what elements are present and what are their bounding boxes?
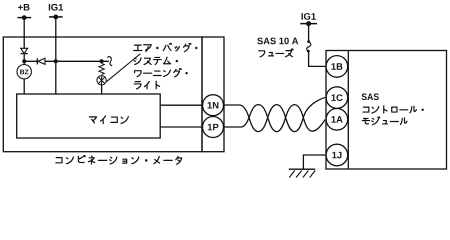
label SAS 10 A [257, 38, 298, 45]
wire IG1 down to microcomputer [55, 17, 57, 94]
connector pin 1J [326, 144, 348, 166]
wire BZ to microcomputer [23, 79, 25, 94]
wire microcomputer to 1N [160, 104, 202, 106]
label SAS control module [362, 93, 379, 100]
connector pin 1N [203, 95, 224, 116]
label IG1 left [49, 4, 63, 11]
junction node B [54, 59, 58, 63]
twisted pair wire B (1P to 1A) [224, 105, 326, 132]
wire microcomputer to 1P [160, 126, 202, 128]
label IG1 right [301, 13, 315, 20]
leader line to lamp [106, 54, 140, 82]
wire horizontal bus [24, 60, 109, 62]
buzzer BZ [17, 65, 31, 79]
twisted pair wire A (1N to 1C) [224, 98, 326, 132]
continuation hook (wire continues) [108, 57, 113, 66]
wire fuse to 1B [309, 51, 326, 66]
ground [289, 169, 315, 177]
junction node C (lamp branch) [100, 59, 104, 63]
connector pin 1P [203, 117, 224, 138]
connector pin 1B [326, 56, 348, 78]
label air bag system warning light (katakana) [134, 43, 198, 89]
microcomputer box [17, 94, 161, 138]
fuse SAS 10A symbol [307, 40, 311, 52]
diode D1 (vertical, cathode down) [21, 48, 28, 53]
air bag warning lamp [97, 76, 106, 85]
terminal IG1 right [300, 21, 317, 26]
diode D2 (horizontal, cathode left) [37, 58, 45, 64]
terminal +B [18, 15, 32, 20]
wire IG1 to fuse [308, 24, 310, 42]
connector pin 1C [326, 87, 348, 109]
wire +B down [23, 18, 25, 49]
wire lamp to microcomputer [101, 85, 103, 94]
connector strip right line [347, 51, 349, 170]
connector strip 1N/1P [202, 37, 224, 152]
junction node A [22, 59, 26, 63]
label fuse (katakana) [259, 49, 293, 57]
connector pin 1A [326, 109, 348, 131]
wire diode to junction [23, 54, 25, 65]
combination meter box [3, 37, 202, 152]
label combination meter (katakana) [56, 156, 182, 165]
terminal IG1 left [49, 15, 63, 20]
wire 1J to ground [303, 155, 326, 169]
SAS control module box [326, 51, 447, 170]
label microcomputer (katakana) [89, 116, 128, 124]
label +B [18, 4, 30, 11]
resistor (series with warning lamp) [99, 63, 104, 74]
